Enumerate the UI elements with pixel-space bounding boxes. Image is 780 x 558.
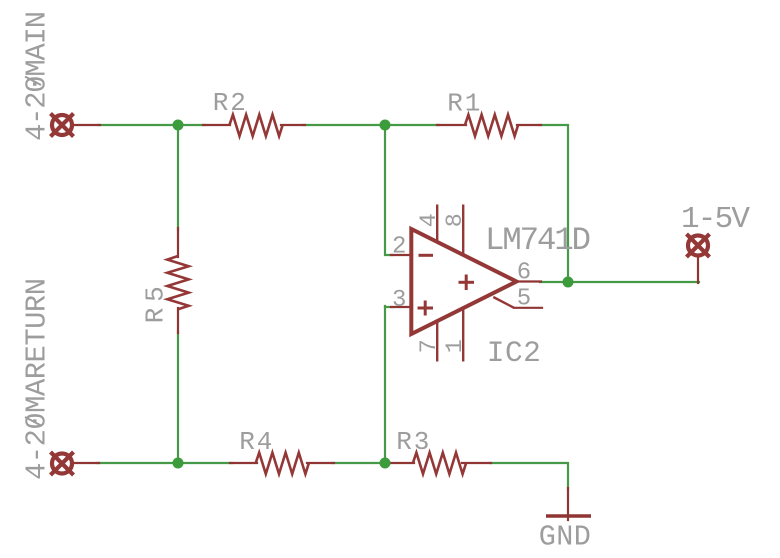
svg-text:1-5V: 1-5V bbox=[681, 202, 750, 237]
svg-text:8: 8 bbox=[442, 213, 469, 227]
svg-text:5: 5 bbox=[517, 286, 531, 313]
svg-text:IC2: IC2 bbox=[487, 336, 541, 370]
svg-text:R1: R1 bbox=[447, 89, 480, 119]
svg-text:1: 1 bbox=[442, 339, 469, 353]
svg-text:GND: GND bbox=[539, 521, 591, 554]
svg-text:R3: R3 bbox=[396, 427, 429, 457]
svg-text:R4: R4 bbox=[239, 427, 272, 457]
svg-text:4: 4 bbox=[416, 213, 443, 227]
svg-text:LM741D: LM741D bbox=[485, 222, 591, 259]
svg-text:R2: R2 bbox=[213, 88, 246, 118]
svg-text:4-20MARETURN: 4-20MARETURN bbox=[20, 278, 53, 480]
svg-text:6: 6 bbox=[517, 260, 531, 287]
svg-text:3: 3 bbox=[392, 287, 406, 314]
svg-text:7: 7 bbox=[416, 339, 443, 353]
svg-text:2: 2 bbox=[392, 233, 406, 260]
svg-text:4-20MAIN: 4-20MAIN bbox=[20, 11, 53, 141]
